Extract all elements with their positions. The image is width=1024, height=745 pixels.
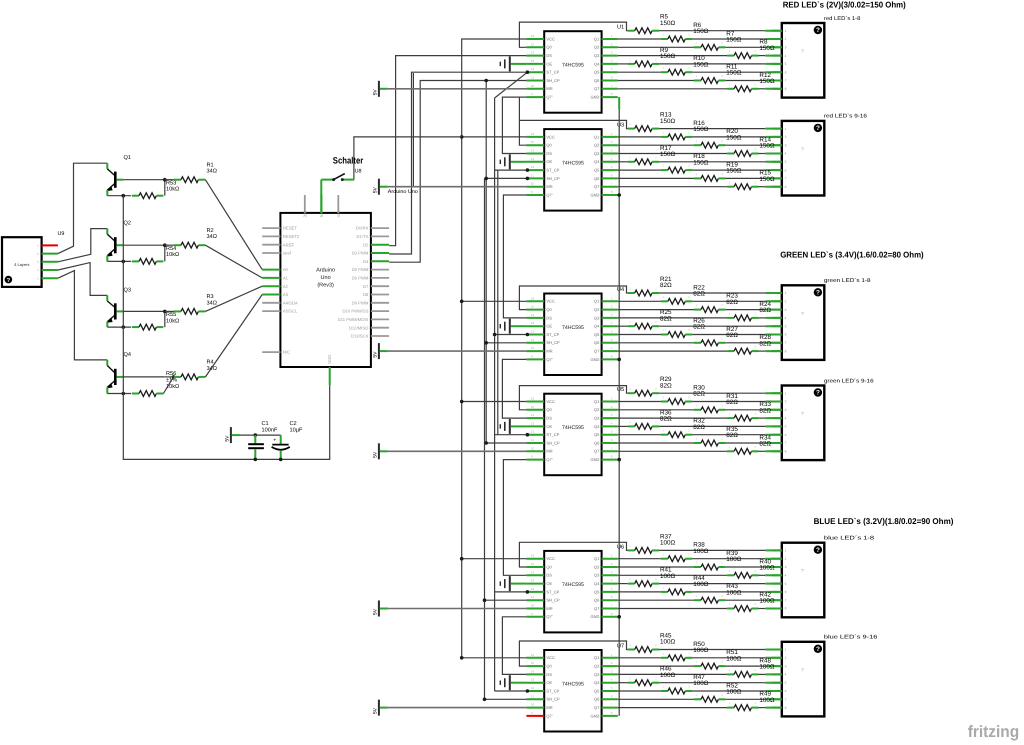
power 5V symbol — [372, 443, 388, 459]
svg-text:U5: U5 — [617, 387, 624, 393]
wire ST_CP bus B — [497, 170, 499, 435]
svg-text:3: 3 — [785, 46, 787, 50]
svg-text:MR: MR — [546, 606, 552, 611]
wire R41 to connector pin 5 — [659, 583, 782, 585]
connector blue LED´s 9-16 — [772, 635, 878, 717]
svg-text:82Ω: 82Ω — [759, 441, 771, 448]
Arduino pin N/C — [262, 350, 290, 355]
Arduino pin A4/SDA — [262, 300, 298, 305]
Arduino pin VIN — [336, 195, 341, 217]
svg-text:10: 10 — [531, 346, 535, 350]
svg-text:Q5: Q5 — [594, 332, 600, 337]
wire R19 to connector pin 7 — [725, 177, 781, 179]
wire R35 to connector pin 7 — [725, 442, 781, 444]
resistor R13 150Ω — [628, 112, 676, 132]
wire ST_CP bus A — [494, 98, 496, 691]
wire R34 to connector pin 8 — [759, 450, 782, 452]
svg-text:150Ω: 150Ω — [759, 176, 775, 183]
resistor R33 82Ω — [727, 401, 771, 421]
svg-text:14: 14 — [531, 149, 535, 153]
svg-text:5V: 5V — [372, 451, 378, 458]
wire R38 to connector pin 2 — [692, 558, 782, 560]
svg-text:3: 3 — [785, 308, 787, 312]
wire switch to Arduino 5v — [320, 180, 322, 213]
svg-text:?: ? — [7, 277, 11, 284]
svg-text:8: 8 — [785, 185, 787, 189]
svg-text:10kΩ: 10kΩ — [166, 186, 179, 193]
junction Q4 emitter — [122, 392, 126, 396]
svg-text:150Ω: 150Ω — [660, 20, 676, 27]
svg-text:A2: A2 — [283, 284, 289, 289]
svg-text:100Ω: 100Ω — [693, 548, 709, 555]
svg-text:11: 11 — [531, 76, 534, 80]
wire to R49 — [618, 707, 727, 709]
svg-text:150Ω: 150Ω — [693, 61, 709, 68]
wire R54 to base junction — [164, 245, 166, 261]
resistor R37 100Ω — [628, 533, 676, 553]
junction ST_CP pin — [526, 590, 530, 594]
wire SH_CP feed — [486, 342, 526, 344]
wire R15 to connector pin 8 — [759, 186, 782, 188]
svg-text:Q2: Q2 — [594, 664, 600, 669]
svg-text:SH_CP: SH_CP — [546, 78, 560, 83]
svg-text:82Ω: 82Ω — [726, 399, 738, 406]
74HC595 shift register U6 — [526, 544, 624, 632]
wire R36 to connector pin 5 — [659, 425, 782, 427]
svg-text:3: 3 — [785, 664, 787, 668]
svg-text:4: 4 — [785, 416, 787, 420]
svg-text:green LED´s 9-16: green LED´s 9-16 — [824, 378, 874, 384]
svg-text:fritzing: fritzing — [968, 723, 1020, 741]
svg-text:8: 8 — [785, 706, 787, 710]
svg-text:16: 16 — [531, 653, 535, 657]
svg-text:74HC595: 74HC595 — [562, 63, 584, 69]
connector red LED`s 9-16 — [772, 114, 867, 196]
svg-text:14: 14 — [531, 413, 535, 417]
resistor R34 82Ω — [727, 434, 771, 454]
svg-text:10: 10 — [531, 84, 535, 88]
junction VCC bus — [460, 400, 464, 404]
svg-text:Q2: Q2 — [594, 143, 600, 148]
svg-text:Q5: Q5 — [594, 688, 600, 693]
svg-text:14: 14 — [531, 669, 535, 673]
svg-text:150Ω: 150Ω — [693, 159, 709, 166]
svg-text:15: 15 — [531, 42, 535, 46]
wire U9 pin 3 to Q2 — [58, 229, 107, 262]
wire R4 to Arduino A3 — [205, 295, 262, 377]
resistor R53 10k — [132, 180, 179, 198]
svg-text:BLUE LED`s (3.2V)(1.8/0.02=90: BLUE LED`s (3.2V)(1.8/0.02=90 Ohm) — [814, 516, 954, 526]
Arduino pin D3 PWM — [352, 251, 389, 256]
svg-text:16: 16 — [531, 296, 535, 300]
wire to R42 — [618, 608, 727, 610]
svg-text:74HC595: 74HC595 — [562, 425, 584, 431]
wire Q7 serial chain — [503, 195, 526, 318]
svg-text:D2: D2 — [363, 242, 369, 247]
wire R6 to connector pin 2 — [692, 38, 782, 40]
wire emitter rail to GND — [123, 196, 329, 460]
resistor R2 34 — [165, 242, 206, 248]
junction GND bus — [617, 615, 621, 619]
U9 pin 4 — [42, 269, 58, 271]
svg-text:Q7′: Q7′ — [546, 614, 552, 619]
svg-text:100Ω: 100Ω — [759, 565, 775, 572]
svg-text:13: 13 — [531, 579, 535, 583]
svg-text:10: 10 — [531, 446, 535, 450]
svg-text:1: 1 — [785, 549, 787, 553]
svg-text:U8: U8 — [355, 169, 362, 175]
wire to R16 — [618, 136, 661, 138]
wire R42 to connector pin 8 — [759, 608, 782, 610]
svg-text:Q1: Q1 — [594, 299, 600, 304]
resistor R9 150Ω — [628, 47, 676, 67]
svg-text:ST_CP: ST_CP — [546, 168, 559, 173]
svg-text:Q6: Q6 — [594, 340, 600, 345]
svg-text:5: 5 — [785, 681, 787, 685]
svg-text:Q3: Q3 — [594, 53, 600, 58]
wire VCC feed — [462, 657, 527, 659]
wire ST_CP feed — [495, 591, 527, 593]
junction VCC bus — [460, 557, 464, 561]
svg-text:100Ω: 100Ω — [759, 697, 775, 704]
svg-text:DS: DS — [546, 315, 552, 320]
svg-text:Q3: Q3 — [594, 151, 600, 156]
wire to R40 — [618, 574, 727, 576]
svg-text:Q0: Q0 — [546, 45, 552, 50]
Arduino pin D9 PWM — [352, 300, 389, 305]
svg-text:?: ? — [816, 547, 820, 554]
switch U8 Schalter — [321, 156, 363, 182]
svg-text:1: 1 — [785, 648, 787, 652]
resistor R8 150Ω — [727, 39, 775, 59]
svg-text:Q1: Q1 — [594, 36, 600, 41]
svg-text:R1: R1 — [207, 163, 214, 169]
svg-text:2: 2 — [785, 37, 787, 41]
wire R52 to connector pin 7 — [725, 698, 781, 700]
svg-text:5: 5 — [785, 425, 787, 429]
svg-text:R4: R4 — [207, 360, 214, 366]
svg-text:GND: GND — [591, 95, 600, 100]
svg-text:R54: R54 — [166, 246, 176, 252]
wire R9 to connector pin 5 — [659, 63, 782, 65]
svg-text:14: 14 — [531, 51, 535, 55]
svg-text:Q4: Q4 — [594, 159, 600, 164]
svg-text:6: 6 — [785, 70, 787, 74]
resistor R12 150Ω — [727, 72, 775, 92]
resistor R16 150Ω — [661, 120, 709, 140]
junction U1 ST_CP — [526, 70, 530, 74]
svg-text:ioref: ioref — [283, 251, 292, 256]
svg-text:6: 6 — [785, 433, 787, 437]
svg-text:4: 4 — [785, 574, 787, 578]
svg-text:R3: R3 — [207, 294, 214, 300]
Arduino pin A5/SCL — [262, 309, 298, 314]
svg-text:MR: MR — [546, 349, 552, 354]
svg-text:VCC: VCC — [546, 36, 555, 41]
svg-text:U3: U3 — [617, 123, 624, 129]
resistor R56 10k — [132, 371, 179, 396]
wire 5V to MR — [388, 88, 526, 90]
svg-text:Q6: Q6 — [594, 697, 600, 702]
connector U9 4 Layers — [2, 231, 64, 287]
wire SH_CP feed — [485, 599, 527, 601]
svg-text:5V: 5V — [372, 608, 378, 615]
Arduino Uno U2 — [280, 213, 371, 367]
wire R44 to connector pin 6 — [692, 591, 782, 593]
wire R2 to Arduino A1 — [205, 245, 262, 278]
svg-text:7: 7 — [785, 441, 787, 445]
svg-text:10: 10 — [531, 703, 535, 707]
wire ST_CP diagonal — [495, 72, 528, 98]
svg-text:DS: DS — [546, 53, 552, 58]
label R2 — [207, 228, 217, 240]
svg-text:100Ω: 100Ω — [660, 639, 676, 646]
svg-text:2: 2 — [785, 135, 787, 139]
wire Q1 base — [117, 179, 165, 181]
svg-text:7: 7 — [785, 598, 787, 602]
wire VCC feed — [462, 558, 527, 560]
svg-text:74HC595: 74HC595 — [562, 160, 584, 166]
svg-text:82Ω: 82Ω — [660, 382, 672, 389]
svg-text:16: 16 — [531, 34, 535, 38]
svg-text:100Ω: 100Ω — [660, 540, 676, 547]
wire R18 to connector pin 6 — [692, 169, 782, 171]
svg-text:SH_CP: SH_CP — [546, 340, 560, 345]
svg-text:Q1: Q1 — [124, 155, 131, 161]
junction GND bus — [617, 193, 621, 197]
svg-text:10kΩ: 10kΩ — [166, 251, 179, 258]
svg-text:1: 1 — [785, 291, 787, 295]
wire to R26 — [618, 334, 661, 336]
svg-text:4: 4 — [785, 316, 787, 320]
label Arduino Uno — [388, 189, 418, 195]
svg-text:6: 6 — [785, 168, 787, 172]
svg-text:D11 PWM/MOSI: D11 PWM/MOSI — [338, 317, 369, 322]
junction ST_CP pin — [526, 168, 530, 172]
title RED LEDs — [783, 0, 906, 10]
svg-text:Q4: Q4 — [594, 424, 600, 429]
wire R3 to Arduino A2 — [205, 286, 262, 311]
svg-text:Q4: Q4 — [594, 680, 600, 685]
svg-text:15: 15 — [531, 305, 535, 309]
resistor R52 100Ω — [694, 682, 742, 702]
svg-text:VCC: VCC — [546, 134, 555, 139]
junction Q2 emitter — [122, 260, 126, 264]
wire R28 to connector pin 8 — [759, 350, 782, 352]
svg-text:Q1: Q1 — [594, 556, 600, 561]
svg-text:RED LED`s (2V)(3/0.02=150 Ohm): RED LED`s (2V)(3/0.02=150 Ohm) — [783, 0, 906, 10]
svg-text:GND: GND — [591, 614, 600, 619]
svg-text:Q0: Q0 — [546, 307, 552, 312]
wire Q7 serial chain — [502, 97, 526, 153]
resistor R18 150Ω — [661, 153, 709, 173]
wire VCC bus — [462, 39, 527, 658]
svg-text:2: 2 — [785, 656, 787, 660]
svg-text:VIN: VIN — [336, 210, 341, 217]
svg-text:D13/SCK: D13/SCK — [351, 334, 369, 339]
svg-text:Q3: Q3 — [594, 315, 600, 320]
svg-text:100Ω: 100Ω — [726, 589, 742, 596]
wire ST_CP feed — [495, 334, 527, 336]
svg-text:2: 2 — [785, 300, 787, 304]
wire to R50 — [618, 657, 661, 659]
resistor R51 100Ω — [694, 649, 742, 669]
wire to R34 — [618, 450, 727, 452]
svg-text:4: 4 — [785, 54, 787, 58]
svg-text:3: 3 — [785, 143, 787, 147]
svg-text:16: 16 — [531, 554, 535, 558]
wire R50 to connector pin 2 — [692, 657, 782, 659]
Arduino pin D0/RX — [356, 226, 389, 231]
Arduino pin ioref — [262, 251, 292, 256]
svg-text:R2: R2 — [207, 228, 214, 234]
svg-text:Q2: Q2 — [594, 564, 600, 569]
svg-text:Q3: Q3 — [124, 287, 131, 293]
resistor R11 150Ω — [694, 64, 742, 84]
label R4 — [207, 360, 217, 372]
svg-text:blue LED´s 1-8: blue LED´s 1-8 — [824, 536, 874, 542]
junction GND bus — [617, 358, 621, 362]
wire 5V to MR — [388, 450, 526, 452]
wire to R44 — [618, 591, 661, 593]
svg-text:16: 16 — [531, 397, 535, 401]
resistor R48 100Ω — [727, 657, 775, 677]
wire to R19 — [618, 177, 694, 179]
svg-text:GND: GND — [591, 192, 600, 197]
resistor R5 150Ω — [628, 14, 676, 34]
connector red LED`s 1-8 — [772, 16, 861, 98]
svg-text:150Ω: 150Ω — [726, 70, 742, 77]
wire R37 to connector pin 1 — [659, 549, 782, 551]
resistor R39 100Ω — [694, 550, 742, 570]
label R1 — [207, 163, 217, 175]
wire to R28 — [618, 350, 727, 352]
svg-text:82Ω: 82Ω — [759, 407, 771, 414]
junction SH_CP bus — [484, 177, 488, 181]
svg-text:11: 11 — [531, 694, 534, 698]
wire R23 to connector pin 3 — [725, 309, 781, 311]
svg-text:R55: R55 — [166, 312, 176, 318]
svg-text:A0: A0 — [283, 267, 289, 272]
svg-text:DS: DS — [546, 151, 552, 156]
resistor R25 82Ω — [628, 309, 672, 329]
svg-text:100Ω: 100Ω — [759, 664, 775, 671]
wire to R21 — [519, 286, 627, 310]
svg-text:13: 13 — [531, 157, 535, 161]
svg-text:Q5: Q5 — [594, 168, 600, 173]
Arduino pin D4 — [363, 259, 389, 264]
wire to R35 — [618, 442, 694, 444]
svg-text:100Ω: 100Ω — [726, 655, 742, 662]
svg-text:ST_CP: ST_CP — [546, 688, 559, 693]
svg-text:7: 7 — [785, 698, 787, 702]
junction SH_CP bus — [483, 598, 487, 602]
svg-text:Q7′: Q7′ — [546, 357, 552, 362]
svg-text:GND: GND — [591, 713, 600, 718]
wire to R37 — [519, 542, 627, 567]
wire 5V to MR — [388, 350, 526, 352]
svg-text:12: 12 — [531, 587, 535, 591]
wire to R52 — [618, 698, 694, 700]
svg-text:MR: MR — [546, 86, 552, 91]
svg-text:Q3: Q3 — [594, 672, 600, 677]
svg-text:Q4: Q4 — [594, 581, 600, 586]
svg-text:VCC: VCC — [546, 556, 555, 561]
svg-text:15: 15 — [531, 140, 535, 144]
svg-text:5V: 5V — [224, 435, 230, 442]
junction VCC bus — [460, 656, 464, 660]
resistor R23 82Ω — [694, 293, 738, 313]
transistor Q2 — [107, 221, 131, 262]
wire U9 pin 4 to Q3 — [58, 263, 107, 296]
power 5V symbol — [372, 81, 388, 97]
wire U9 pin 2 to Q1 — [58, 163, 107, 253]
svg-text:green LED´s 1-8: green LED´s 1-8 — [824, 278, 871, 284]
svg-text:blue LED´s 9-16: blue LED´s 9-16 — [824, 635, 878, 641]
svg-text:Q5: Q5 — [594, 432, 600, 437]
svg-text:1: 1 — [785, 127, 787, 131]
wire to R41 — [618, 583, 628, 585]
wire to R30 — [618, 401, 661, 403]
svg-text:Q1: Q1 — [594, 655, 600, 660]
transistor Q1 — [107, 155, 131, 196]
svg-text:5: 5 — [785, 582, 787, 586]
svg-text:12: 12 — [531, 430, 535, 434]
wire to R29 — [519, 386, 627, 410]
svg-text:Q2: Q2 — [594, 307, 600, 312]
title GREEN LEDs — [780, 249, 924, 259]
svg-text:5V: 5V — [372, 351, 378, 358]
Arduino pin D12/MISO — [349, 325, 389, 330]
wire to R43 — [618, 599, 694, 601]
svg-text:Q1: Q1 — [594, 134, 600, 139]
svg-text:8: 8 — [785, 607, 787, 611]
wire 5V to MR — [388, 186, 526, 188]
svg-text:150Ω: 150Ω — [726, 168, 742, 175]
svg-text:?: ? — [816, 646, 820, 653]
svg-text:150Ω: 150Ω — [660, 53, 676, 60]
wire R51 to connector pin 3 — [725, 665, 781, 667]
wire to R20 — [618, 144, 694, 146]
resistor R7 150Ω — [694, 30, 742, 50]
wire SH_CP feed — [485, 698, 527, 700]
svg-text:6: 6 — [785, 590, 787, 594]
resistor R21 82Ω — [628, 276, 672, 296]
svg-text:150Ω: 150Ω — [726, 134, 742, 141]
svg-text:SH_CP: SH_CP — [546, 697, 560, 702]
svg-text:GND: GND — [591, 357, 600, 362]
wire VCC feed — [462, 300, 527, 302]
wire Q1 emitter row — [107, 195, 131, 197]
svg-text:74HC595: 74HC595 — [562, 582, 584, 588]
wire R10 to connector pin 6 — [692, 71, 782, 73]
wire R48 to connector pin 4 — [759, 673, 782, 675]
svg-text:100Ω: 100Ω — [693, 581, 709, 588]
title BLUE LEDs — [814, 516, 954, 526]
wire to R47 — [618, 690, 661, 692]
svg-text:10: 10 — [531, 604, 535, 608]
Arduino pin D8 — [363, 292, 389, 297]
Arduino pin A0 — [262, 267, 288, 272]
wire segment near U1 Q7 — [518, 98, 520, 121]
svg-text:GND: GND — [327, 355, 332, 364]
resistor R47 100Ω — [661, 674, 709, 694]
svg-text:D5 PWM: D5 PWM — [352, 267, 369, 272]
wire VCC feed — [462, 401, 527, 403]
svg-text:Q7′: Q7′ — [546, 192, 552, 197]
wire to R9 — [618, 63, 628, 65]
svg-text:100Ω: 100Ω — [693, 647, 709, 654]
